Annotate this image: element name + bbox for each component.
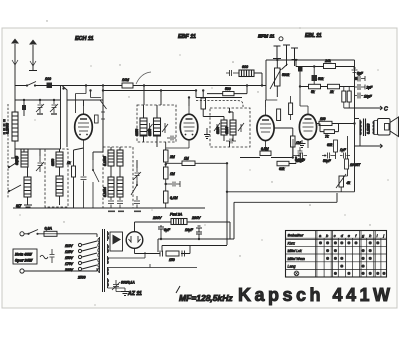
tone pot P2 [339,176,344,187]
rectifier AZ11 [126,232,143,249]
AC wave symbol [40,255,48,259]
grid capacitor C-g2 [322,153,336,159]
coil L5 [56,176,63,196]
svg-text:C: C [384,107,388,113]
resistor Rk1 [72,166,76,177]
heater box [110,232,123,251]
scan speckles [19,20,388,305]
svg-text:0.2003: 0.2003 [6,123,10,134]
wire tone [341,176,347,192]
svg-text:175V: 175V [65,262,74,266]
table row lines [286,238,387,269]
svg-text:i: i [377,233,378,238]
junction dots [23,99,25,101]
junction dots bus [143,84,145,86]
wire anode to OT [317,119,359,132]
switch Sb1 [8,161,19,168]
stray mark MF [176,286,180,293]
resistor R-g ech [95,115,99,123]
wire anode EBF [203,91,224,121]
svg-text:2k: 2k [329,90,334,94]
mech link dashed [196,101,243,108]
svg-text:Mittel Wenn: Mittel Wenn [288,257,306,261]
wire 50k [313,67,315,87]
svg-text:1M: 1M [184,157,189,161]
fuse F1 0,8A [44,231,57,236]
wire g2 ebl [300,67,308,107]
wire osc grid [93,152,103,160]
resistor R-efm2 [289,103,293,115]
wires inside box [59,149,61,205]
pickup jack J3 [291,48,298,60]
trimmer capacitor CT5 [147,123,153,133]
wire cathode EBF [166,142,189,208]
capacitor C-8uF [158,225,164,239]
svg-text:10M: 10M [122,78,129,82]
svg-text:1M: 1M [170,172,175,176]
capacitor C-det [226,70,239,76]
trimmer capacitor CT1 [36,100,44,113]
svg-text:0,5M: 0,5M [261,147,269,151]
wire screen bus [103,91,242,98]
ground bar left [24,205,32,207]
coil L7 [117,150,123,166]
svg-text:110V: 110V [65,244,73,248]
resistor R-50k [312,75,318,81]
resistor R-2k [328,84,340,89]
resistor R-efm1 [277,109,281,121]
resistor R-vb [347,91,351,102]
grid capacitor C-g1 [293,139,307,159]
capacitor C-psu2 [182,251,185,257]
svg-text:7k: 7k [325,135,329,139]
svg-text:EFM 11: EFM 11 [258,34,275,40]
switch S-phono [282,64,288,70]
wire r-row [300,86,355,88]
resistor 100 [47,83,53,89]
wire cap bus [354,60,356,146]
wire down from switch [61,86,68,150]
coil L13 [230,120,236,135]
resistor R-an2 [324,130,335,134]
trimmer capacitor CT3 [36,156,44,172]
resistor R-62kv [334,140,338,152]
svg-text:0,1µF: 0,1µF [295,158,304,162]
wire B+ top [266,60,355,100]
coil label block left edge [3,119,6,135]
switch Sb2 [8,185,21,192]
wire heater run [108,252,198,268]
coil L1 antenna [12,112,18,141]
table frame [286,231,387,278]
capacitor C-av [298,147,303,158]
svg-text:j: j [382,233,384,238]
stray pen mark [136,72,151,84]
wire IFT1 bottom [144,136,158,147]
wire psu link1 [158,239,234,252]
mains terminal E1 [20,232,24,236]
svg-text:0.2004: 0.2004 [103,187,107,197]
svg-text:280V: 280V [191,216,201,220]
capacitor Co2 [117,197,123,208]
wire g2 vertical [102,86,104,153]
capacitor C-b3 [355,93,364,99]
svg-text:50µF: 50µF [323,159,332,163]
capacitor Ck1 [81,148,87,208]
svg-text:16µF: 16µF [185,228,194,232]
mains terminal E2 [20,269,24,273]
antenna A1 arrow [14,44,16,86]
wire mains bottom [25,268,98,271]
svg-text:62k: 62k [327,143,333,147]
svg-text:5k: 5k [311,90,315,94]
trimmer capacitor CT6 [162,123,168,133]
ground bus line [13,207,205,209]
svg-text:1M: 1M [296,141,301,145]
trimmer capacitor CT2 [50,100,58,113]
wire ebl grid net [336,136,348,159]
capacitor Co1 [108,197,114,208]
output transformer T2 core [364,119,366,137]
svg-text:1µF: 1µF [340,148,347,152]
resistor R-5k [309,84,321,89]
resistor 300 [122,83,133,88]
wire grid top [67,100,103,106]
field RC capacitor [112,280,120,291]
power rating box [13,249,37,264]
wire cathode [74,148,84,208]
capacitor C-k2 [166,181,180,187]
wire coils top [15,149,61,156]
svg-text:50k: 50k [318,77,324,81]
pickup jack J1 [273,46,281,59]
svg-text:8µF: 8µF [164,228,171,232]
tap 110V [78,243,81,246]
resistor R-150 [166,251,179,256]
transformer T1 secondary HT1 [108,231,109,241]
svg-text:100: 100 [320,117,326,121]
wire OT bottom [355,135,361,146]
svg-text:ECH 11: ECH 11 [75,36,93,42]
coil L11 [154,118,161,136]
switch Sa1 [26,82,36,87]
wire ift2 b [230,108,234,120]
svg-text:817: 817 [16,204,22,208]
wire audio B+ [227,146,355,192]
svg-text:0.1005: 0.1005 [103,156,107,166]
svg-text:125V: 125V [65,250,74,254]
transformer T1 heater1 [107,256,110,264]
svg-text:2M: 2M [169,155,175,159]
resistor R-20k [324,64,336,69]
tap 150V [78,255,81,258]
ground ebl cathode [299,140,306,148]
wire B+ out [135,246,191,254]
svg-text:800/0,1A: 800/0,1A [121,281,135,285]
switch bus [7,104,9,198]
dashed shield box IFT1 [137,105,176,142]
transformer T1 core [103,229,105,292]
wire AVC bus [40,85,266,87]
dashed shield box1 [45,149,68,207]
ground stub L1 [11,149,19,158]
svg-text:150: 150 [169,258,175,262]
wire L1 down [14,141,16,149]
table column lines [316,231,381,278]
contact a [22,105,26,110]
output transformer T2 primary [360,120,361,136]
wires osc [111,147,137,185]
svg-text:Mittel Lok: Mittel Lok [288,249,302,253]
wire g3 corner [91,91,102,98]
coil L9 [117,177,123,197]
svg-text:500: 500 [225,87,231,91]
tube EBF11 [180,114,198,140]
trimmer capacitor CT8 [238,123,244,132]
svg-text:100: 100 [45,77,51,81]
switch Sd1 [131,185,137,195]
svg-text:0250: 0250 [51,159,55,166]
svg-text:0250: 0250 [135,129,139,136]
switch Sg2 [100,100,107,152]
svg-text:0.1018: 0.1018 [367,124,371,134]
trimmer capacitor CT7 [214,123,220,132]
capacitor C-psu1 [160,251,163,257]
coil L14 600 [239,70,254,77]
wire grid res down [347,169,349,176]
transformer T1 field winding [108,278,109,288]
wire mains top [57,234,97,237]
resistor R-01M [164,191,169,203]
wire ift2 bottom [224,135,233,147]
svg-text:Kurz: Kurz [288,242,296,246]
volume pot P1 [275,68,281,86]
resistor R-2M [164,150,169,162]
terminal C1 [344,106,383,110]
wire det top2 [287,59,295,66]
trimmer capacitor CT4 [133,168,141,181]
wire det mid [207,86,247,94]
grid capacitor C-g3 [340,153,350,159]
row lamp [294,271,299,276]
switch Sc1 [93,160,99,208]
wire pot [276,60,278,97]
ground C16 [196,226,202,228]
capacitor C-line [50,249,55,263]
svg-text:Spar 24W: Spar 24W [15,259,33,263]
svg-text:10µF: 10µF [364,95,373,99]
svg-text:2500: 2500 [77,276,86,280]
resistor R-1Mh [182,161,195,166]
svg-text:EBF 11: EBF 11 [178,34,196,40]
wire lower bus [15,99,61,101]
wire diode out [166,162,227,164]
resistor R-05M [260,151,271,156]
ground g-det [204,128,210,139]
wire audio return [234,193,337,239]
wire AZ11 plate [135,222,141,232]
wire antenna bus [15,85,62,87]
svg-text:10 05T: 10 05T [350,163,361,167]
svg-text:Lang: Lang [288,265,296,269]
svg-text:4k: 4k [347,181,351,185]
resistor R-g2d [298,66,303,72]
svg-text:Kapsch 441W: Kapsch 441W [238,285,394,305]
transformer T1 secondary HT2 [108,244,109,253]
svg-text:c: c [334,233,336,238]
coil L12 [221,120,227,135]
resistor R-an [201,98,206,109]
svg-text:2µF: 2µF [366,86,374,90]
wire antenna down [14,86,16,113]
svg-text:62k: 62k [279,167,285,171]
wire grid top EBF [188,98,190,107]
svg-text:150V: 150V [65,256,74,260]
svg-text:280V: 280V [152,216,162,220]
wire screen top [296,60,355,67]
svg-text:AZ 11: AZ 11 [127,291,142,297]
mains switch S2 [25,230,45,234]
svg-text:0,1M: 0,1M [170,196,178,200]
capacitor C-ift2 [226,139,236,144]
wire speaker links [374,121,378,135]
resistor R-1Md [291,136,296,147]
fuse F2 [171,219,187,225]
resistor R-1Mv [164,167,169,179]
wire det coil [254,73,262,86]
speaker LS1 [378,119,391,136]
svg-text:500k: 500k [282,73,290,77]
transformer T1 primary [98,237,100,273]
svg-text:Netz 46W: Netz 46W [15,253,32,257]
coil L6 [108,150,114,166]
tube EBL11 [299,114,316,139]
resistor R-62k [277,161,289,166]
resistor R-va [342,91,346,102]
wire psu link2 [162,246,227,253]
resistor R-an1 [319,121,332,125]
label flecks under osc [108,211,141,213]
terminal C2 [360,144,383,148]
coil L2 [21,149,28,167]
svg-text:5µF: 5µF [357,72,364,76]
svg-text:200V: 200V [64,268,74,272]
ground field [121,292,129,296]
capacitor C-b2 [355,84,366,90]
svg-text:MF=128,5kHz: MF=128,5kHz [179,293,233,303]
wire HT [140,222,230,239]
coil L10 [140,118,147,136]
svg-text:1k: 1k [67,161,71,165]
svg-text:Fusi 2A: Fusi 2A [170,213,183,217]
transformer T1 heater2 [107,267,110,275]
tap 125V [78,249,81,252]
capacitor C-16uF [196,228,202,239]
coil L4 [56,152,63,167]
coil L3 [24,177,31,197]
svg-text:600: 600 [242,65,248,69]
capacitor Co3 [134,196,140,208]
tap 200V [78,267,81,270]
svg-text:EBL 11: EBL 11 [305,33,322,39]
wire VC feed vertical [226,163,228,245]
dashed shield box2 [103,147,133,208]
capacitor C-ift1 [167,136,176,141]
ground stubs [37,113,57,115]
svg-text:Schalter: Schalter [288,233,304,238]
antenna A2 arrow [29,45,37,71]
capacitor C-b1 [355,76,366,82]
resistor R-500 [223,92,234,96]
capacitor C-top [352,68,358,73]
tube ECH11 [75,114,93,140]
dashed shield box IFT2 [210,108,250,147]
pilot triangle [113,235,122,245]
tap 175V [78,261,81,264]
wire g4 corner [76,86,87,114]
wire av line [289,158,296,164]
coil L8 [108,177,114,197]
wire efm grid [266,100,278,107]
resistor R-tone [345,159,349,169]
svg-text:0,8A: 0,8A [45,227,53,231]
svg-text:0230: 0230 [225,127,229,134]
wire IFT1 feeds [144,86,162,119]
pickup jack J2 [279,37,283,41]
output transformer T2 secondary [373,121,374,135]
svg-text:20k: 20k [324,59,331,63]
wire det bottom [240,128,293,158]
tube EFM11 [257,115,274,140]
